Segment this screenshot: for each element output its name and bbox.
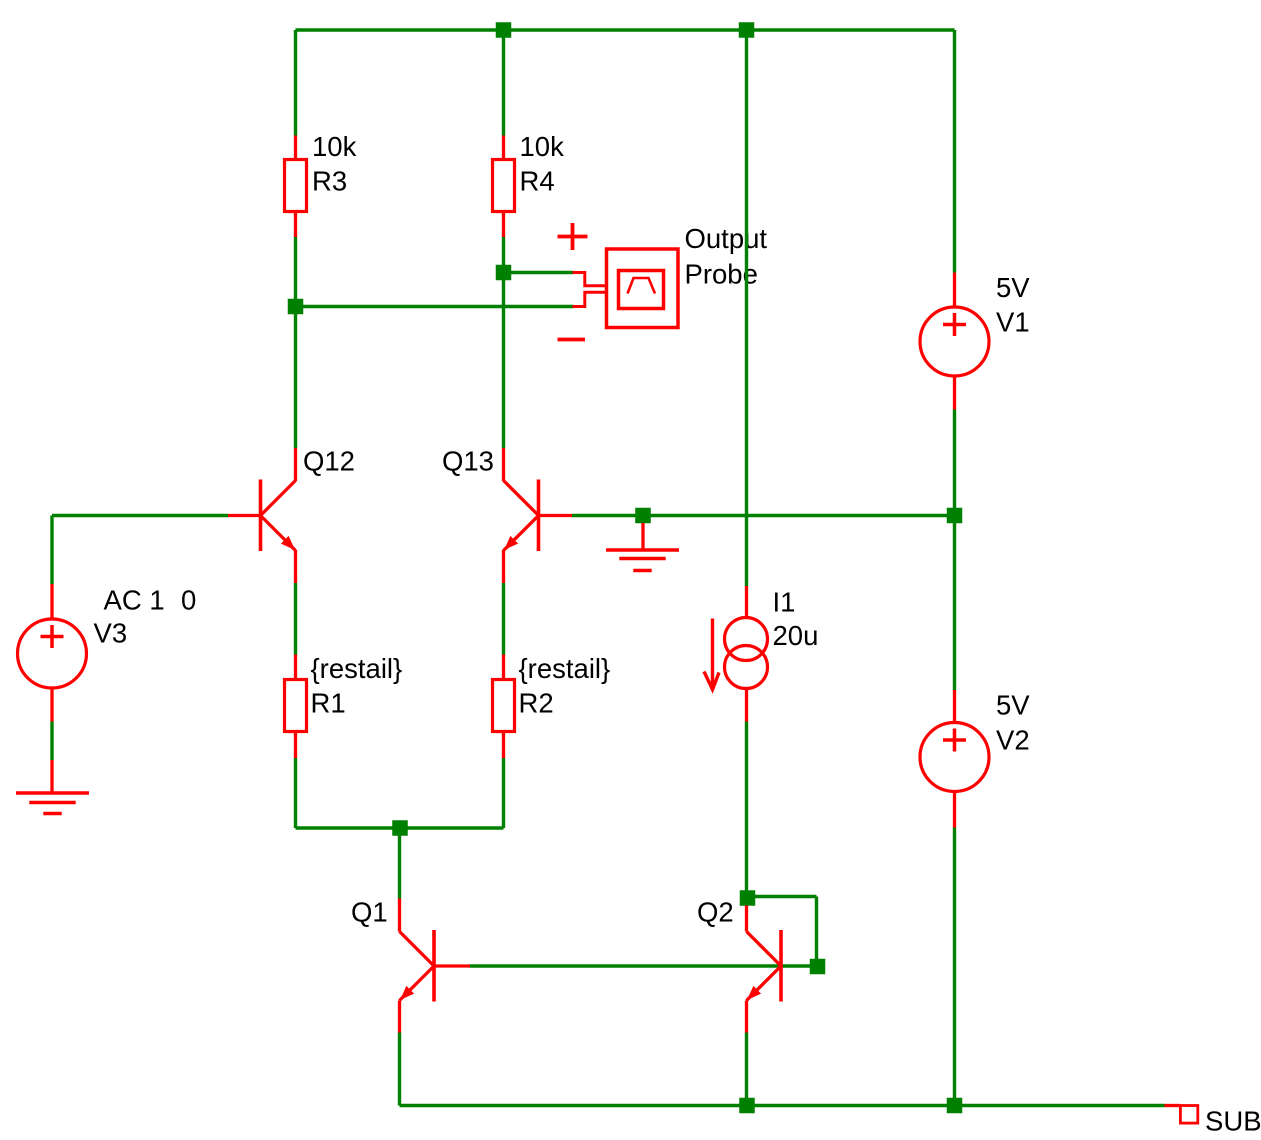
svg-text:10k: 10k [312, 131, 357, 162]
svg-text:I1: I1 [773, 587, 796, 618]
svg-text:V2: V2 [996, 725, 1030, 756]
svg-text:R2: R2 [519, 688, 554, 719]
svg-text:R4: R4 [520, 166, 555, 197]
svg-text:Q13: Q13 [442, 446, 494, 477]
svg-text:V3: V3 [94, 618, 128, 649]
svg-text:Q1: Q1 [351, 897, 388, 928]
svg-text:{restail}: {restail} [311, 653, 403, 684]
svg-text:Output: Output [685, 223, 768, 254]
svg-text:Q2: Q2 [697, 897, 734, 928]
svg-text:AC 1: AC 1 [104, 585, 165, 616]
svg-text:20u: 20u [773, 620, 819, 651]
svg-text:10k: 10k [520, 131, 565, 162]
svg-text:R3: R3 [312, 166, 347, 197]
svg-text:Q12: Q12 [303, 446, 355, 477]
svg-text:5V: 5V [996, 690, 1030, 721]
svg-text:{restail}: {restail} [519, 653, 611, 684]
svg-text:5V: 5V [996, 272, 1030, 303]
svg-text:0: 0 [181, 585, 196, 616]
svg-text:R1: R1 [311, 688, 346, 719]
svg-text:SUB: SUB [1205, 1106, 1261, 1137]
svg-text:V1: V1 [996, 307, 1030, 338]
